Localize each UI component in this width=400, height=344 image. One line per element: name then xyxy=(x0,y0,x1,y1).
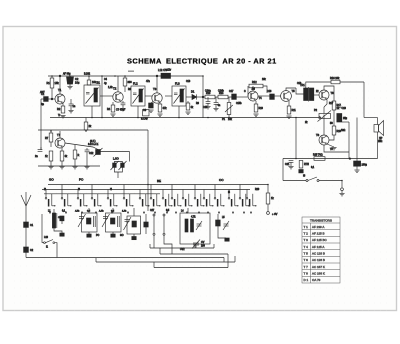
capacitor C9 xyxy=(143,103,153,112)
switch contact I3c xyxy=(228,190,238,207)
wire TR1 secondary to T6 base xyxy=(314,94,319,96)
svg-text:T 4: T 4 xyxy=(304,245,309,249)
switch contact I3b xyxy=(162,190,172,207)
resistor R17 xyxy=(332,101,341,110)
wire rail to R7 xyxy=(50,131,52,133)
wire band bus lower xyxy=(42,189,250,191)
capacitor C1 xyxy=(41,92,48,106)
potentiometer P2 (bias) xyxy=(314,109,333,125)
resistor R9 (AGC box) xyxy=(141,110,149,121)
switch contact I5c xyxy=(246,190,256,207)
svg-text:C12: C12 xyxy=(89,152,94,155)
switch terminal dots row xyxy=(49,212,251,213)
wire rail to R3 xyxy=(88,76,90,80)
node T1 base xyxy=(51,98,53,100)
ground C9 xyxy=(148,110,153,112)
switch contact I5a xyxy=(107,190,117,207)
svg-text:C19: C19 xyxy=(342,107,347,110)
svg-text:R17: R17 xyxy=(329,103,334,105)
ground L2 blob xyxy=(87,234,91,237)
wire L3b ground xyxy=(133,234,135,237)
speaker HP xyxy=(374,121,384,144)
wire C22 riser xyxy=(356,118,358,162)
svg-text:T 7: T 7 xyxy=(304,265,309,269)
svg-text:AC 187 K: AC 187 K xyxy=(312,265,325,269)
switch contact I4b xyxy=(171,185,181,207)
wire to C12 xyxy=(86,148,88,150)
ground C16 xyxy=(213,109,218,111)
switch contact I3a xyxy=(77,190,87,207)
battery positive terminal xyxy=(267,212,278,216)
resistor R19 xyxy=(332,126,341,135)
wire step xyxy=(223,258,225,263)
wire bottom bus 0b xyxy=(160,253,228,255)
wire C2 to ground xyxy=(69,84,71,86)
wire bottom bus 3 xyxy=(154,267,228,269)
wire to L5 xyxy=(217,214,219,220)
resistor R7b xyxy=(45,151,53,161)
coil L1 (antenna coil) xyxy=(48,211,60,229)
ground R10 xyxy=(253,114,258,116)
wire down to I1 xyxy=(41,214,43,243)
wire L3 ground xyxy=(112,232,114,234)
svg-text:AF 125 B: AF 125 B xyxy=(312,232,325,236)
resistor R3 xyxy=(87,80,97,85)
svg-text:+12v: +12v xyxy=(166,70,172,72)
ground R11 xyxy=(286,116,291,118)
trimmer capacitor C31 xyxy=(119,161,127,170)
svg-text:R10: R10 xyxy=(259,107,264,110)
capacitor C20 (electrolytic) xyxy=(337,114,348,123)
resistor RTH xyxy=(299,161,309,169)
wire I1 left xyxy=(42,242,44,244)
wire to L1 xyxy=(53,209,55,213)
antenna xyxy=(21,192,31,206)
ground R4 xyxy=(110,114,115,116)
svg-text:T4: T4 xyxy=(259,96,263,100)
transistor T5 xyxy=(281,89,296,101)
wire T4 emitter to R10 xyxy=(255,101,257,104)
ground C22 xyxy=(354,170,359,172)
wire T2 collector to rail xyxy=(117,76,119,92)
wire T1 collector to rail xyxy=(59,76,61,94)
wire output vertical x364 xyxy=(363,82,365,118)
resistor R15 xyxy=(313,154,325,161)
svg-text:R20: R20 xyxy=(255,189,260,191)
ground L3b blob xyxy=(132,237,136,240)
transistor T1 xyxy=(55,88,65,104)
wire T6 emitter down xyxy=(324,100,327,108)
switch I6 xyxy=(303,174,319,182)
wire T7 to P3 xyxy=(65,143,98,150)
switch contact I2b xyxy=(150,185,160,207)
transistor T8 xyxy=(316,133,329,145)
wire T5 collector to transformer xyxy=(286,88,296,91)
svg-text:BE: BE xyxy=(157,179,161,183)
wire FL3 to D1 xyxy=(186,96,192,98)
transistor T6 xyxy=(319,90,334,100)
choke L12 on rail xyxy=(158,68,171,78)
svg-text:25Ω: 25Ω xyxy=(378,141,383,143)
wire step 5 xyxy=(159,248,161,254)
ground R7d xyxy=(72,167,77,169)
svg-text:AC 128 B: AC 128 B xyxy=(312,252,325,256)
wire rail drop to detector node xyxy=(202,76,204,118)
wire T8 emitter to ground xyxy=(327,144,334,147)
wire to L3 xyxy=(112,208,114,213)
ground T8 xyxy=(331,148,336,150)
svg-text:25μ: 25μ xyxy=(343,117,348,120)
wire into TR1 primary xyxy=(296,88,304,94)
svg-text:T8: T8 xyxy=(316,133,320,137)
wire output to speaker top xyxy=(364,117,378,119)
wire step 4 xyxy=(95,258,97,262)
svg-text:T5: T5 xyxy=(292,89,296,93)
wire R17 to R19 xyxy=(333,110,335,126)
wire bus to R20 xyxy=(267,185,269,194)
wire to C7 xyxy=(122,101,124,103)
wire FL2 bottom down xyxy=(137,106,139,118)
ground battery terminal xyxy=(339,194,344,196)
transistor T4 xyxy=(248,91,262,101)
wire R13 to R14 xyxy=(215,96,218,98)
svg-text:AF 239 A: AF 239 A xyxy=(312,225,324,229)
svg-text:T 2: T 2 xyxy=(304,232,309,236)
switch contact I5b xyxy=(182,190,192,207)
wire vertical x349 xyxy=(348,122,350,159)
wire speaker feed xyxy=(377,118,379,125)
ground L5 blob xyxy=(225,238,229,241)
wire T3 collector to rail xyxy=(156,76,158,93)
capacitor C2 (decoupling, polarized) xyxy=(67,77,80,85)
wire C16b to T5 base xyxy=(274,95,281,97)
resistor R11 xyxy=(287,106,296,114)
wire C21 down xyxy=(290,162,292,166)
IF transformer FL3 xyxy=(172,82,186,107)
svg-text:AF 125 BC: AF 125 BC xyxy=(312,238,328,242)
wire rail to R6 xyxy=(124,76,126,78)
wire trimmers down xyxy=(117,172,119,178)
svg-text:10μ: 10μ xyxy=(75,81,80,85)
ground C2 xyxy=(67,87,72,89)
wire C15 down xyxy=(207,103,209,106)
tuned circuit L2 (PO) xyxy=(75,211,97,233)
wire xyxy=(74,159,76,166)
wire band bus third xyxy=(44,193,160,195)
svg-text:C16: C16 xyxy=(267,90,272,93)
transistor table xyxy=(302,217,340,283)
wire AGC rail y131 xyxy=(38,129,148,131)
wire R14 to C17 xyxy=(228,96,232,98)
svg-text:B1: B1 xyxy=(97,81,101,85)
wire R6 to T2 collector xyxy=(124,86,126,92)
wire xyxy=(50,161,52,166)
junction detector node xyxy=(202,96,204,98)
svg-text:B.262: B.262 xyxy=(84,74,91,76)
wire to terminal xyxy=(341,181,343,189)
wire terminal to ground xyxy=(341,191,343,193)
wire I6 to terminal xyxy=(319,180,342,182)
capacitor C16b xyxy=(267,90,274,99)
wire rail to C2 xyxy=(69,76,71,77)
wire L4 down xyxy=(194,244,196,248)
svg-text:+ 9V: + 9V xyxy=(272,212,278,216)
svg-text:T 1: T 1 xyxy=(304,225,309,229)
wire T1 emitter xyxy=(62,103,64,106)
switch contact I4a xyxy=(91,185,101,207)
wire step 2 xyxy=(227,254,229,268)
resistor R16 xyxy=(330,77,340,84)
svg-text:S.CAV: S.CAV xyxy=(141,118,148,121)
resistor R20 xyxy=(266,193,274,204)
svg-text:T3: T3 xyxy=(153,87,157,91)
svg-text:R1: R1 xyxy=(47,81,51,85)
wire T5 emitter to R11 xyxy=(288,101,290,106)
wire FL3 to R9b xyxy=(187,101,189,103)
svg-text:C18: C18 xyxy=(297,83,302,85)
IF transformer FL2 xyxy=(131,82,145,107)
transistor T7 xyxy=(55,133,65,148)
trimmer CV1 xyxy=(192,240,206,249)
battery terminal xyxy=(341,188,344,191)
ground RTH blob xyxy=(299,170,303,173)
wire speaker return xyxy=(377,132,379,159)
tuned circuit L3b xyxy=(122,211,141,235)
wire R19 to T8 collector xyxy=(329,135,334,140)
svg-text:R11: R11 xyxy=(292,109,297,112)
svg-text:R16 10k: R16 10k xyxy=(330,77,340,80)
trimmer potentiometer P3 xyxy=(94,148,103,157)
wire ground rail y118 xyxy=(50,117,321,119)
wire to P2 top xyxy=(323,107,325,114)
svg-text:CV2: CV2 xyxy=(180,249,185,251)
wire TR1 top to R16 xyxy=(306,82,331,88)
wire post to bus xyxy=(153,235,155,248)
wire to P1 xyxy=(228,97,230,103)
wire supply drop x296 to audio rail xyxy=(295,118,297,159)
svg-text:L.GO: L.GO xyxy=(113,158,119,161)
svg-text:HP: HP xyxy=(379,137,383,140)
wire C24 down xyxy=(61,221,63,224)
switch contact I6a xyxy=(123,185,133,207)
resistor R1 xyxy=(47,78,60,88)
wire top supply rail xyxy=(48,75,203,77)
svg-text:FL2: FL2 xyxy=(133,82,138,86)
wire osc link horizontal xyxy=(98,151,130,153)
svg-text:C13: C13 xyxy=(186,81,191,83)
ground R2 xyxy=(60,116,65,118)
wire to C3 xyxy=(70,99,72,104)
svg-text:T6: T6 xyxy=(331,91,335,95)
wire T4 collector up xyxy=(252,86,254,91)
capacitor C19 xyxy=(337,106,347,110)
svg-text:T 8: T 8 xyxy=(304,272,309,276)
wire T2 emitter down xyxy=(112,102,114,105)
ground R5 xyxy=(157,114,162,116)
junction rail T1 xyxy=(59,75,61,77)
capacitor C2a xyxy=(24,247,34,252)
svg-text:AC 128 B: AC 128 B xyxy=(312,258,325,262)
svg-text:AC 188 K: AC 188 K xyxy=(312,272,325,276)
svg-text:R15 70Ω: R15 70Ω xyxy=(313,154,323,157)
ground C12 xyxy=(84,167,89,169)
wire B1 bottom to ground rail xyxy=(91,106,93,118)
wire to switch I6 xyxy=(283,180,306,182)
svg-text:OA 79: OA 79 xyxy=(312,278,321,282)
svg-text:C21: C21 xyxy=(285,163,290,166)
coil module L5 (OC) xyxy=(216,217,229,230)
wire input line to T1 base xyxy=(41,98,55,100)
wire bottom bus 2 xyxy=(96,261,235,263)
svg-text:PO: PO xyxy=(79,178,84,182)
wire oscillator ground bus xyxy=(38,165,100,167)
wire trimmer bottoms xyxy=(114,167,122,172)
svg-text:D1: D1 xyxy=(191,90,195,94)
wire to L2 xyxy=(88,208,90,213)
resistor R2 xyxy=(57,106,65,117)
resistor R13 xyxy=(205,90,215,99)
resistor R6 xyxy=(123,78,132,86)
wire R16 to output node xyxy=(340,81,364,83)
ground R7c xyxy=(59,167,64,169)
ground L3 blob xyxy=(111,234,115,237)
wire audio bottom rail xyxy=(283,158,378,160)
wire step 0 xyxy=(213,244,215,248)
tuned circuit L3 (GO) xyxy=(99,210,121,233)
resistor R10 xyxy=(254,104,263,112)
wire C17 to T4 base xyxy=(236,96,248,98)
resistor R7c xyxy=(60,151,68,161)
trimmer capacitor C30 xyxy=(111,161,119,170)
wire post2 drop xyxy=(164,235,172,254)
svg-text:(S.T.): (S.T.) xyxy=(90,141,96,143)
wire decoupling drop x102 xyxy=(101,76,103,118)
transistor T2 xyxy=(113,87,123,103)
wire C7 down xyxy=(122,105,124,108)
wire rail to R8 xyxy=(85,118,87,123)
wire T4 to C16b xyxy=(258,95,270,97)
svg-text:T 6: T 6 xyxy=(304,258,309,262)
switch contact I2a xyxy=(61,185,71,207)
capacitor C7 xyxy=(116,103,126,112)
wire antenna bottom xyxy=(25,252,27,257)
svg-text:C2: C2 xyxy=(75,77,79,81)
svg-text:PO: PO xyxy=(96,235,100,237)
wire drop x148 to band switch xyxy=(147,130,149,211)
svg-text:C15b: C15b xyxy=(236,103,242,105)
wire L2 ground xyxy=(88,232,90,234)
wire CV1 down xyxy=(195,245,197,248)
ground C15 xyxy=(205,107,210,109)
wire antenna down xyxy=(25,206,27,222)
faint scan texture xyxy=(14,40,388,310)
wire AGC to C10 xyxy=(40,147,42,150)
switch contact I4c xyxy=(239,185,249,207)
switch contact I1c xyxy=(203,190,213,207)
switch contact I1a xyxy=(45,190,55,207)
wire trimmer top bus xyxy=(114,162,122,164)
wire T7 emitter to R7c xyxy=(61,148,63,151)
wire R20 to battery terminal xyxy=(267,204,269,212)
wire T4 base up to R12 xyxy=(247,86,249,96)
driver transformer TR1 xyxy=(300,84,314,102)
wire antenna mid xyxy=(25,227,27,247)
resistor R14 xyxy=(218,90,228,99)
resistor R12 xyxy=(249,81,263,91)
wire R7 down xyxy=(50,142,52,147)
wire step 7 xyxy=(234,256,236,262)
svg-text:T 3: T 3 xyxy=(304,238,309,242)
junction dots on rails xyxy=(50,75,343,185)
wire to C15 xyxy=(207,97,209,102)
capacitor C22 (electrolytic) xyxy=(349,157,367,167)
capacitor C15 xyxy=(203,102,210,110)
svg-text:C27: C27 xyxy=(150,210,155,212)
wire osc link down xyxy=(129,152,131,162)
terminal posts xyxy=(153,214,165,235)
wire step 6 xyxy=(149,244,151,248)
wire D1 to R13 xyxy=(197,96,205,98)
coil pack L4 (BE) xyxy=(180,211,210,245)
resistor R7 xyxy=(45,133,53,142)
svg-text:T 5: T 5 xyxy=(304,252,309,256)
transistor T3 xyxy=(152,87,162,103)
svg-text:GO: GO xyxy=(49,178,54,182)
IF transformer B1 xyxy=(84,81,100,107)
svg-text:R12: R12 xyxy=(252,81,257,84)
wire xyxy=(61,161,63,166)
switch contact I2c xyxy=(214,185,224,207)
wire to L3b xyxy=(133,208,135,216)
potentiometer P1 (volume) xyxy=(222,103,233,122)
smudge under title xyxy=(128,71,134,72)
wire rail to R1 xyxy=(51,76,53,78)
wire I1 to bottom bus xyxy=(55,243,57,258)
wire T7 collector to AGC rail xyxy=(59,131,61,138)
capacitor C3 xyxy=(69,104,76,108)
wire T8 out xyxy=(324,145,349,152)
wire R1 to base node xyxy=(51,88,53,99)
wire R12 to T4 collector side xyxy=(263,86,267,93)
wire bottom bus 0 xyxy=(150,247,214,249)
wire T6 collector loop xyxy=(324,86,334,101)
svg-text:SCHEMA ELECTRIQUE AR 20 - AR 2: SCHEMA ELECTRIQUE AR 20 - AR 21 xyxy=(127,57,277,66)
svg-text:100μ: 100μ xyxy=(362,164,368,167)
wire C16 down xyxy=(215,104,217,108)
wire T3 emitter to C9 xyxy=(151,102,153,104)
ground R7b xyxy=(48,167,53,169)
wire C3 down xyxy=(70,106,72,110)
resistor R8 xyxy=(84,122,92,130)
wire B1 to T2 base xyxy=(100,95,113,97)
svg-text:R14: R14 xyxy=(219,92,224,95)
wire bottom bus 1 xyxy=(26,257,224,259)
svg-text:CV: CV xyxy=(201,241,205,244)
capacitor C1a xyxy=(24,222,34,227)
resistor R4 xyxy=(107,105,115,112)
diode D1 xyxy=(191,90,197,100)
svg-text:S.P.C.A.V.: S.P.C.A.V. xyxy=(88,143,99,146)
wire AGC line down to oscillator xyxy=(40,99,42,150)
capacitor C24 xyxy=(60,216,64,221)
svg-text:D 1: D 1 xyxy=(304,278,309,282)
wire P1 to ground rail xyxy=(228,115,230,118)
svg-text:T2: T2 xyxy=(113,87,117,91)
wire T3 emitter to R5 xyxy=(159,103,161,105)
svg-text:R2: R2 xyxy=(57,107,61,111)
wire step 3 xyxy=(153,262,155,268)
svg-text:15k: 15k xyxy=(55,81,60,85)
